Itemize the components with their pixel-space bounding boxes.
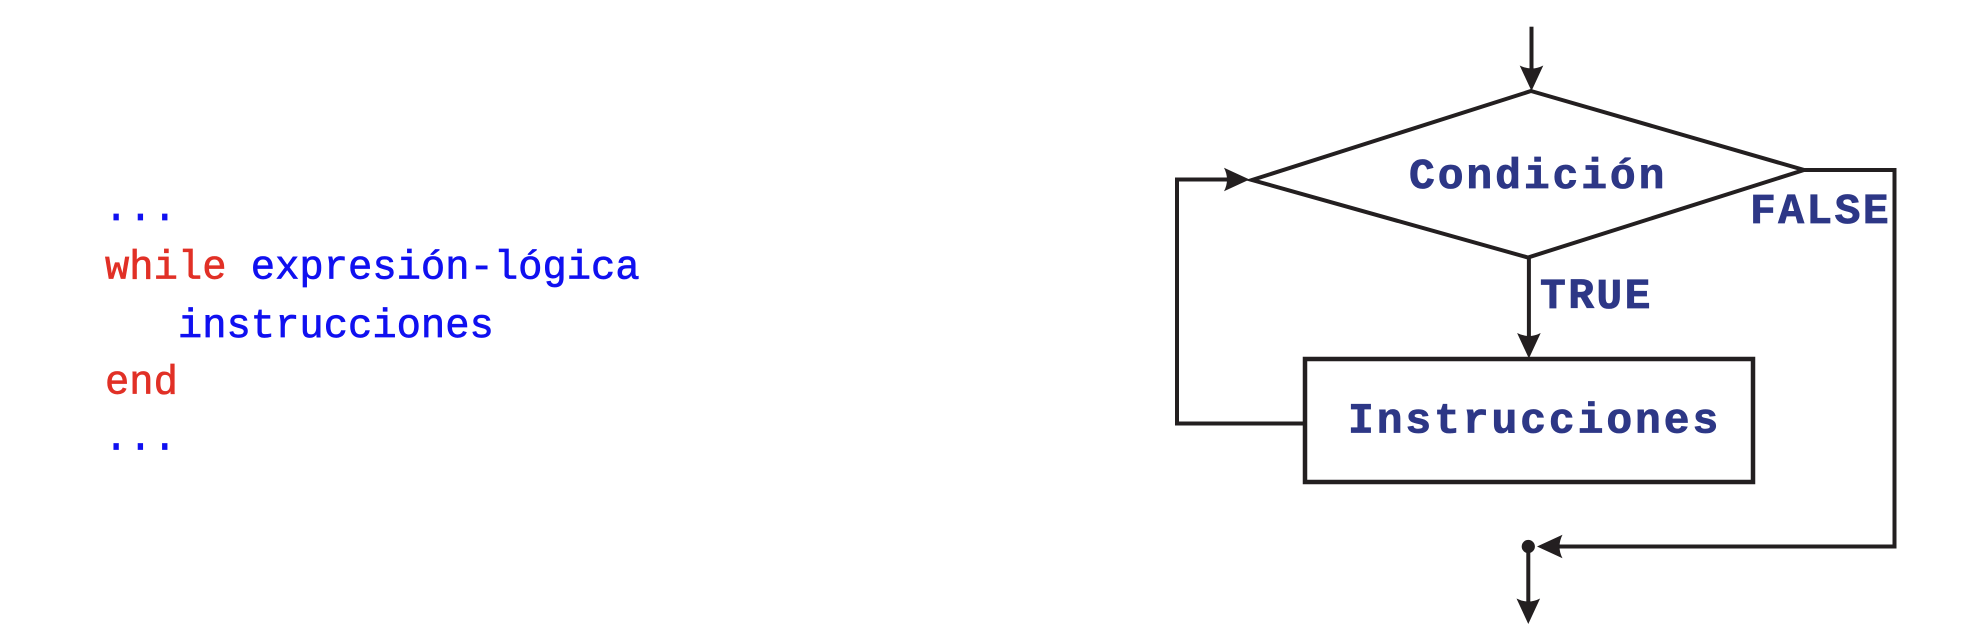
svg-text:instrucciones: instrucciones xyxy=(178,304,494,350)
svg-text:FALSE: FALSE xyxy=(1750,187,1891,236)
arrowhead into junction dot xyxy=(1537,535,1563,559)
svg-text:while: while xyxy=(105,246,227,292)
wire FALSE branch right and down xyxy=(1548,170,1895,547)
svg-text:expresión-lógica: expresión-lógica xyxy=(251,246,640,292)
wire exit down xyxy=(1526,547,1530,603)
decision diamond xyxy=(1252,91,1804,258)
arrowhead exit bottom xyxy=(1517,599,1541,625)
wire diamond bottom to box xyxy=(1527,258,1531,339)
wire loop back from box left to diamond left xyxy=(1177,180,1306,424)
svg-text:Instrucciones: Instrucciones xyxy=(1348,397,1721,446)
junction dot xyxy=(1522,540,1535,553)
wire top entry xyxy=(1530,27,1534,72)
arrowhead into diamond left xyxy=(1224,168,1250,192)
svg-text:TRUE: TRUE xyxy=(1540,272,1653,321)
arrowhead into box top xyxy=(1517,333,1541,359)
process box Instrucciones xyxy=(1305,359,1753,482)
svg-text:...: ... xyxy=(104,417,177,463)
arrowhead into diamond top xyxy=(1520,66,1544,92)
svg-text:...: ... xyxy=(104,187,177,233)
svg-text:end: end xyxy=(105,361,178,407)
svg-text:Condición: Condición xyxy=(1409,152,1667,201)
